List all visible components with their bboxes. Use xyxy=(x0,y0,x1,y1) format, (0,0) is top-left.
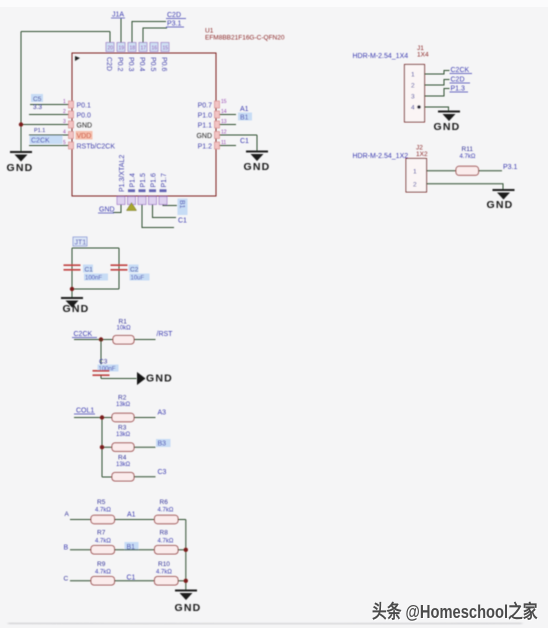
svg-text:B3: B3 xyxy=(158,441,167,448)
svg-text:R6: R6 xyxy=(160,499,169,506)
svg-text:10uF: 10uF xyxy=(131,276,145,282)
svg-text:P0.0: P0.0 xyxy=(77,113,92,120)
svg-text:GND: GND xyxy=(7,162,34,174)
svg-text:GND: GND xyxy=(175,602,202,614)
svg-text:RSTb/C2CK: RSTb/C2CK xyxy=(77,144,116,151)
svg-text:R5: R5 xyxy=(97,499,106,506)
svg-text:15: 15 xyxy=(163,46,169,52)
svg-text:R1: R1 xyxy=(119,319,128,326)
svg-text:GND: GND xyxy=(146,373,173,385)
svg-text:P0.5: P0.5 xyxy=(149,57,156,72)
svg-text:P1.3/XTAL2: P1.3/XTAL2 xyxy=(119,155,126,192)
svg-text:EFM8BB21F16G-C-QFN20: EFM8BB21F16G-C-QFN20 xyxy=(205,35,285,42)
svg-text:C: C xyxy=(64,576,69,583)
svg-text:C1: C1 xyxy=(85,267,94,274)
svg-text:P0.6: P0.6 xyxy=(160,57,167,72)
svg-text:2: 2 xyxy=(411,83,415,90)
svg-text:5: 5 xyxy=(63,140,66,146)
svg-text:1: 1 xyxy=(413,169,417,176)
svg-text:P1.0: P1.0 xyxy=(198,113,213,120)
svg-text:VDD: VDD xyxy=(77,133,92,140)
svg-text:3: 3 xyxy=(411,94,415,101)
svg-text:P0.2: P0.2 xyxy=(116,57,123,72)
svg-text:3.3: 3.3 xyxy=(33,104,42,111)
svg-text:C3: C3 xyxy=(99,359,108,366)
svg-text:U1: U1 xyxy=(205,28,214,35)
svg-text:C1: C1 xyxy=(240,138,249,145)
svg-text:R10: R10 xyxy=(158,561,170,568)
svg-text:14: 14 xyxy=(221,109,227,115)
svg-text:GND: GND xyxy=(99,207,115,214)
svg-text:13: 13 xyxy=(221,119,227,125)
svg-text:C2CK: C2CK xyxy=(31,138,50,145)
svg-text:100nF: 100nF xyxy=(99,367,116,373)
svg-text:4.7kΩ: 4.7kΩ xyxy=(95,570,111,576)
svg-text:P1.3: P1.3 xyxy=(451,86,466,93)
svg-text:A1: A1 xyxy=(240,106,249,113)
svg-text:C2CK: C2CK xyxy=(451,67,470,74)
svg-text:A3: A3 xyxy=(158,410,167,417)
svg-text:B: B xyxy=(64,545,69,552)
svg-text:R4: R4 xyxy=(118,455,127,462)
svg-text:18: 18 xyxy=(130,46,136,52)
svg-text:2: 2 xyxy=(413,182,417,189)
svg-text:3: 3 xyxy=(63,119,66,125)
svg-text:COL1: COL1 xyxy=(76,408,94,415)
svg-text:P1.4: P1.4 xyxy=(130,173,137,188)
svg-text:JT1: JT1 xyxy=(75,240,87,247)
svg-text:4: 4 xyxy=(411,105,415,112)
svg-text:GND: GND xyxy=(434,121,461,133)
svg-text:B1: B1 xyxy=(240,115,249,122)
svg-text:P3.1: P3.1 xyxy=(167,21,182,28)
svg-text:P0.3: P0.3 xyxy=(127,57,134,72)
svg-text:C3: C3 xyxy=(158,469,167,476)
svg-text:P1.1: P1.1 xyxy=(198,123,213,130)
svg-text:P0.4: P0.4 xyxy=(138,57,145,72)
svg-text:R2: R2 xyxy=(118,395,127,402)
svg-text:1: 1 xyxy=(63,99,66,105)
svg-text:/RST: /RST xyxy=(157,331,174,338)
svg-text:12: 12 xyxy=(221,130,227,136)
svg-text:4.7kΩ: 4.7kΩ xyxy=(158,508,174,514)
svg-text:4.7kΩ: 4.7kΩ xyxy=(95,539,111,545)
svg-text:15: 15 xyxy=(221,99,227,105)
svg-text:R9: R9 xyxy=(97,561,106,568)
svg-text:R7: R7 xyxy=(97,530,106,537)
svg-text:GND: GND xyxy=(244,161,271,173)
svg-text:1X2: 1X2 xyxy=(416,151,428,158)
svg-text:20: 20 xyxy=(108,46,114,52)
svg-text:4.7kΩ: 4.7kΩ xyxy=(156,570,172,576)
svg-text:C2: C2 xyxy=(130,267,139,274)
svg-text:10kΩ: 10kΩ xyxy=(117,326,132,332)
svg-text:C2D: C2D xyxy=(105,57,112,71)
svg-text:C2CK: C2CK xyxy=(74,331,93,338)
svg-text:P3.1: P3.1 xyxy=(503,164,518,171)
svg-text:P1.7: P1.7 xyxy=(161,173,168,188)
svg-text:4: 4 xyxy=(63,130,66,136)
svg-text:P1.5: P1.5 xyxy=(140,173,147,188)
svg-text:P1.2: P1.2 xyxy=(198,144,213,151)
svg-text:13kΩ: 13kΩ xyxy=(116,432,131,438)
svg-text:C5: C5 xyxy=(33,96,42,103)
svg-text:C2D: C2D xyxy=(451,77,465,84)
svg-text:P1.6: P1.6 xyxy=(151,173,158,188)
svg-text:16: 16 xyxy=(152,46,158,52)
svg-text:C1: C1 xyxy=(178,218,187,225)
svg-text:P0.1: P0.1 xyxy=(77,103,92,110)
svg-text:2: 2 xyxy=(63,109,66,115)
svg-text:P0.7: P0.7 xyxy=(198,103,213,110)
svg-text:13kΩ: 13kΩ xyxy=(116,402,131,408)
svg-text:GND: GND xyxy=(196,133,212,140)
svg-text:13kΩ: 13kΩ xyxy=(116,462,131,468)
svg-text:R8: R8 xyxy=(160,530,169,537)
svg-text:4.7kΩ: 4.7kΩ xyxy=(158,539,174,545)
svg-text:HDR-M-2.54_1X2: HDR-M-2.54_1X2 xyxy=(353,153,409,160)
svg-text:C2D: C2D xyxy=(167,12,181,19)
svg-text:1X4: 1X4 xyxy=(417,52,429,59)
svg-text:19: 19 xyxy=(119,46,125,52)
svg-text:11: 11 xyxy=(221,140,226,146)
svg-text:17: 17 xyxy=(141,46,147,52)
svg-text:R3: R3 xyxy=(118,425,127,432)
svg-text:GND: GND xyxy=(63,303,90,315)
svg-text:100nF: 100nF xyxy=(85,276,102,282)
svg-text:J1A: J1A xyxy=(112,12,124,19)
svg-text:GND: GND xyxy=(487,199,514,211)
svg-text:GND: GND xyxy=(77,123,93,130)
svg-text:A1: A1 xyxy=(127,512,136,519)
svg-text:B1: B1 xyxy=(178,200,185,209)
svg-text:1: 1 xyxy=(411,72,415,79)
svg-text:4.7kΩ: 4.7kΩ xyxy=(95,508,111,514)
svg-text:4.7kΩ: 4.7kΩ xyxy=(460,154,476,160)
svg-text:HDR-M-2.54_1X4: HDR-M-2.54_1X4 xyxy=(353,53,409,60)
svg-text:P1.1: P1.1 xyxy=(34,128,45,134)
svg-text:A: A xyxy=(65,511,70,518)
svg-text:R11: R11 xyxy=(462,146,474,153)
